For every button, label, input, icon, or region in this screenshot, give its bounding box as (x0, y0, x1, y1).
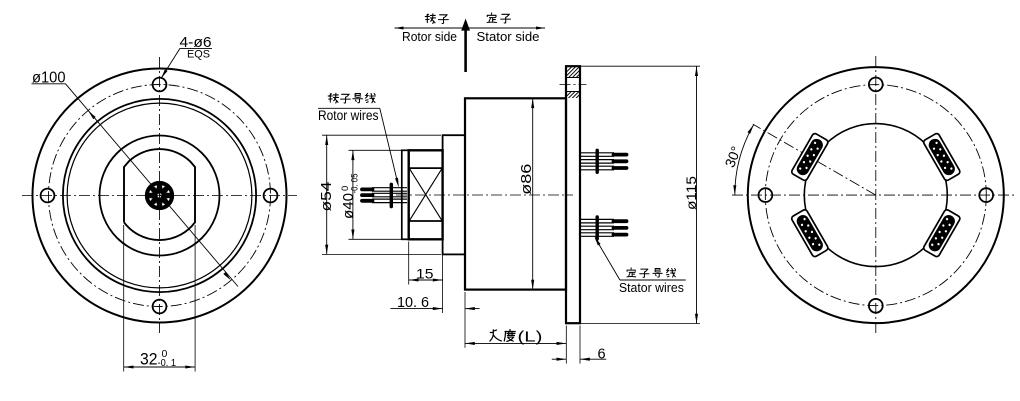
dimension 32 line (124, 366, 195, 368)
flange plate rectangle (566, 66, 580, 323)
front view wire bundle (146, 182, 173, 209)
label stator side cn (487, 13, 496, 23)
dimension dia40 (349, 149, 409, 151)
dimension dia115 (581, 65, 700, 67)
front view outer flange circle (33, 69, 287, 323)
front view body circle inner (67, 103, 252, 288)
label length cn (490, 330, 501, 341)
dimension 30deg arc (735, 125, 754, 196)
boss dia54 rectangle (443, 135, 465, 254)
svg-text:Rotor wires: Rotor wires (318, 108, 379, 123)
flange bolt hole section lines (566, 77, 580, 79)
label rotor side cn (425, 14, 435, 24)
front view shaft profile dia40 with flats (124, 149, 195, 240)
svg-text:ø40: ø40 (341, 193, 357, 219)
svg-text:(L): (L) (518, 329, 543, 345)
front view boss circle dia54 (100, 136, 220, 256)
dimension 30deg text (721, 144, 744, 170)
rear view connector circle (804, 124, 947, 267)
stator wires leader (596, 239, 620, 281)
dimension dia100 leader diagonal (66, 84, 239, 287)
svg-text:-0. 1: -0. 1 (158, 357, 177, 369)
dimension 10.6 (391, 308, 443, 310)
front view centerline horizontal (22, 195, 297, 197)
svg-text:-0. 05: -0. 05 (349, 174, 360, 194)
front view bolt hole bottom (153, 300, 167, 314)
svg-text:Rotor side: Rotor side (402, 29, 457, 44)
dimension 32 extension lines (123, 225, 125, 372)
dimension 6 (579, 326, 581, 364)
rotor wires leader (380, 108, 398, 182)
svg-text:10. 6: 10. 6 (397, 295, 429, 311)
label rotor wires cn (328, 93, 338, 103)
rear view bolt hole right (979, 188, 993, 202)
front view bolt hole top (153, 78, 167, 92)
rear view d-sub connectors (923, 133, 961, 182)
main body dia86 rectangle (465, 98, 566, 289)
svg-text:EQS: EQS (187, 49, 210, 61)
rear view centerline horizontal (732, 194, 1014, 196)
dimension length L (464, 313, 466, 348)
dimension dia86 (532, 98, 534, 289)
front view bolt circle centerline (49, 85, 271, 307)
svg-text:ø86: ø86 (519, 164, 535, 195)
rear view bolt hole left (759, 188, 773, 202)
section view centerline (396, 194, 573, 196)
svg-text:15: 15 (416, 266, 434, 282)
front view bolt hole left (41, 189, 55, 203)
front view bolt hole right (264, 189, 278, 203)
rotor block dia40 with cross (409, 150, 443, 239)
rear view bolt hole bottom (869, 299, 883, 313)
front view centerline vertical (159, 57, 161, 333)
stator wires lower bundle (580, 217, 627, 239)
svg-text:32: 32 (140, 350, 158, 368)
stator wires upper bundle (580, 150, 627, 172)
dimension 15 (408, 242, 410, 285)
rear view bolt circle centerline (765, 85, 986, 306)
svg-text:ø54: ø54 (319, 182, 335, 212)
rotor wires (362, 184, 407, 206)
svg-text:6: 6 (598, 346, 606, 362)
rear view 30deg radius line (753, 124, 876, 195)
svg-text:ø115: ø115 (683, 176, 699, 210)
rear view bolt hole top (869, 78, 883, 92)
dimension dia54 (322, 134, 441, 136)
rotor-stator divider arrow (395, 27, 546, 29)
rear view centerline vertical (875, 56, 877, 334)
label stator wires cn (627, 268, 636, 277)
rear view outer circle (748, 67, 1004, 323)
rotor end cap rectangle (402, 150, 409, 239)
svg-text:Stator side: Stator side (477, 29, 540, 44)
svg-text:Stator wires: Stator wires (619, 280, 684, 295)
front view body circle outer (63, 99, 256, 292)
